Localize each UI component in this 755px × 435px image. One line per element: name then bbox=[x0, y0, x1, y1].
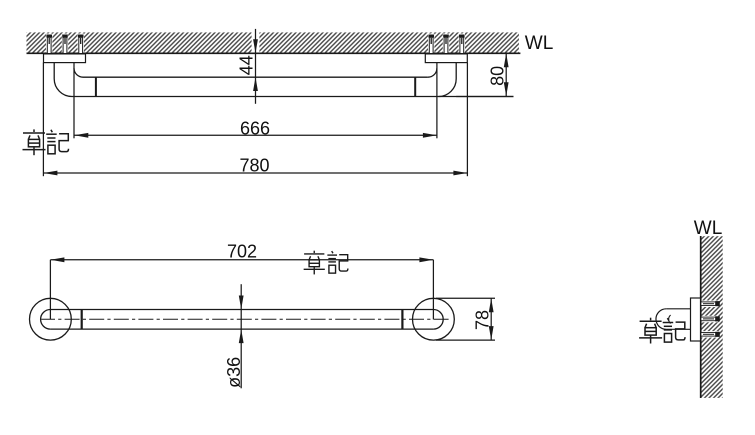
side screw 1 bbox=[701, 301, 720, 306]
watermark 記 (top view) bbox=[46, 130, 68, 154]
dimension 44 line bbox=[255, 29, 257, 104]
screw 3 right flange bbox=[459, 35, 465, 54]
tube side view end cap bbox=[656, 309, 666, 330]
wall hatching band (side) bbox=[702, 236, 723, 398]
dimension 78 arrows bbox=[489, 298, 494, 340]
dimension ø36 line bbox=[240, 284, 242, 388]
dimension 780 arrows bbox=[43, 171, 467, 176]
wall line WL (top view) bbox=[27, 52, 521, 54]
screw 2 right flange bbox=[443, 35, 449, 54]
tube side view bottom edge bbox=[666, 328, 690, 330]
side screw 3 bbox=[701, 332, 720, 337]
watermark 記 (side view) bbox=[663, 318, 685, 342]
grab bar inner profile left arc bbox=[74, 68, 83, 77]
svg-text:WL: WL bbox=[694, 218, 723, 239]
left flange circle bbox=[30, 298, 72, 340]
extension line left inner (666) bbox=[73, 63, 75, 139]
dimension 78 extension top bbox=[436, 297, 495, 299]
dimension 78 extension bottom bbox=[436, 339, 495, 341]
dimension 702 extension right bbox=[432, 260, 434, 320]
screw 1 left flange bbox=[46, 35, 52, 54]
screw 3 left flange bbox=[78, 35, 84, 54]
screw 2 left flange bbox=[62, 35, 68, 54]
left flange plate bbox=[44, 54, 86, 63]
tube joint line left (plan) bbox=[95, 77, 97, 96]
white halo around 44-dim line in hatch bbox=[252, 32, 260, 53]
dimension 780 line bbox=[43, 172, 467, 174]
tube joint line left (front) bbox=[81, 310, 83, 330]
tube bottom edge (front) bbox=[50, 328, 433, 330]
svg-text:702: 702 bbox=[227, 242, 257, 262]
dimension 80 arrows bbox=[504, 53, 509, 96]
dimension ø36 arrows bbox=[239, 296, 244, 344]
tube side view top edge bbox=[666, 308, 690, 310]
dimension 78 line bbox=[490, 298, 492, 340]
wall hatching band bbox=[27, 32, 519, 52]
grab bar outer profile right (plan view) bbox=[439, 63, 457, 97]
watermark 章 (front view) bbox=[304, 251, 325, 275]
mounting plate (side view) bbox=[691, 298, 701, 341]
left tube end cap bbox=[41, 310, 51, 330]
centerline (front) bbox=[41, 318, 451, 320]
white halos for side screws bbox=[701, 301, 718, 308]
grab bar inner profile right arc bbox=[428, 68, 437, 77]
dimension 80 extension (tube bottom) bbox=[456, 96, 513, 98]
watermark 章 (side view) bbox=[639, 318, 662, 344]
grab bar top edge (plan view) bbox=[83, 76, 428, 78]
side screw 2 bbox=[701, 316, 720, 321]
dimension 666 arrows bbox=[74, 133, 437, 138]
svg-text:78: 78 bbox=[473, 310, 493, 330]
extension line right inner (666) bbox=[436, 63, 438, 139]
svg-text:80: 80 bbox=[487, 66, 507, 86]
tube side view inner bend arc bbox=[669, 315, 671, 323]
tube joint line right (front) bbox=[401, 310, 403, 330]
tube top edge (front) bbox=[50, 309, 433, 311]
extension line right outer (780) bbox=[466, 63, 468, 177]
svg-text:44: 44 bbox=[237, 55, 257, 75]
watermark 記 (front view) bbox=[327, 251, 348, 273]
right flange plate bbox=[425, 54, 467, 63]
screw 1 right flange bbox=[428, 35, 434, 54]
tube joint line right (plan) bbox=[414, 77, 416, 96]
white halos for right flange screws bbox=[428, 34, 434, 54]
svg-text:780: 780 bbox=[239, 156, 269, 176]
extension line left outer (780) bbox=[42, 63, 44, 177]
white halos for left flange screws bbox=[46, 34, 52, 54]
svg-text:666: 666 bbox=[240, 118, 270, 138]
dimension 80 line bbox=[505, 53, 507, 97]
wall line WL (side view) bbox=[700, 236, 702, 398]
dimension 702 extension left bbox=[49, 260, 51, 320]
dimension 44 arrows bbox=[253, 39, 258, 91]
dimension 702 line bbox=[50, 259, 433, 261]
right tube end cap bbox=[433, 310, 443, 330]
svg-text:ø36: ø36 bbox=[224, 357, 244, 388]
svg-text:WL: WL bbox=[525, 33, 554, 54]
grab bar outer profile (plan view) bbox=[54, 63, 513, 97]
dimension 666 line bbox=[74, 134, 437, 136]
watermark 章 (top view) bbox=[23, 129, 46, 155]
dimension 702 arrows bbox=[50, 257, 433, 262]
right flange circle bbox=[413, 298, 455, 340]
